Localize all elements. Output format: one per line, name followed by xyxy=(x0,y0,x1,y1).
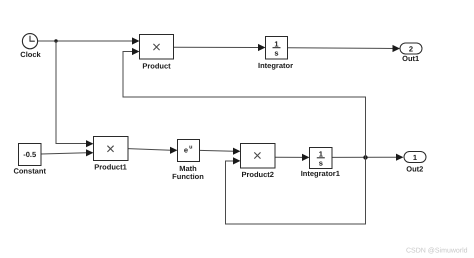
svg-text:1: 1 xyxy=(274,39,278,48)
wire Math Function output to Product2 input 1 xyxy=(200,148,241,155)
block Constant -0.5 xyxy=(13,144,46,176)
block Product2 xyxy=(241,144,276,180)
wire Clock branch down to Product1 input 1 xyxy=(56,41,94,147)
svg-text:-0.5: -0.5 xyxy=(23,150,36,159)
wire Product output to Integrator xyxy=(174,44,266,51)
svg-text:Product2: Product2 xyxy=(241,170,274,179)
svg-text:Constant: Constant xyxy=(13,167,46,176)
svg-text:1: 1 xyxy=(413,153,417,162)
block Clock xyxy=(20,34,41,59)
block Math Function e^u xyxy=(172,140,204,182)
svg-text:Clock: Clock xyxy=(20,50,41,59)
wire Constant output to Product1 input 2 xyxy=(41,149,94,156)
outport Out2 xyxy=(404,152,426,174)
node junction on Clock wire xyxy=(54,39,57,42)
block Integrator xyxy=(258,37,293,70)
svg-text:Out2: Out2 xyxy=(406,164,423,173)
svg-text:e: e xyxy=(184,145,188,154)
wire Integrator output to Out1 xyxy=(288,45,401,52)
block Product1 xyxy=(94,137,129,172)
svg-text:u: u xyxy=(189,145,192,151)
wire Integrator1 output to Out2 xyxy=(332,154,404,161)
svg-text:Integrator: Integrator xyxy=(258,61,293,70)
svg-text:s: s xyxy=(274,49,278,58)
block Product xyxy=(140,35,174,71)
svg-text:Function: Function xyxy=(172,172,204,181)
wire feedback from Out2 wire up to Product input 2 xyxy=(123,48,366,157)
svg-text:CSDN @Simuworld: CSDN @Simuworld xyxy=(406,247,468,255)
outport Out1 xyxy=(400,43,422,63)
svg-text:Out1: Out1 xyxy=(402,54,419,63)
node junction on Out2 wire xyxy=(363,155,367,159)
wire Product1 output to Math Function xyxy=(128,147,178,154)
wire feedback from Out2 wire down to Product2 input 2 xyxy=(226,157,366,224)
wire Product2 output to Integrator1 xyxy=(275,154,310,161)
svg-text:Product: Product xyxy=(142,61,171,70)
svg-text:Integrator1: Integrator1 xyxy=(301,169,340,178)
svg-text:s: s xyxy=(319,159,323,168)
svg-text:Product1: Product1 xyxy=(94,162,127,171)
svg-text:1: 1 xyxy=(319,149,323,158)
svg-text:2: 2 xyxy=(409,44,413,53)
wire Clock to Product input 1 xyxy=(38,37,140,44)
block Integrator1 xyxy=(301,148,340,179)
watermark CSDN @Simuworld xyxy=(406,247,468,255)
